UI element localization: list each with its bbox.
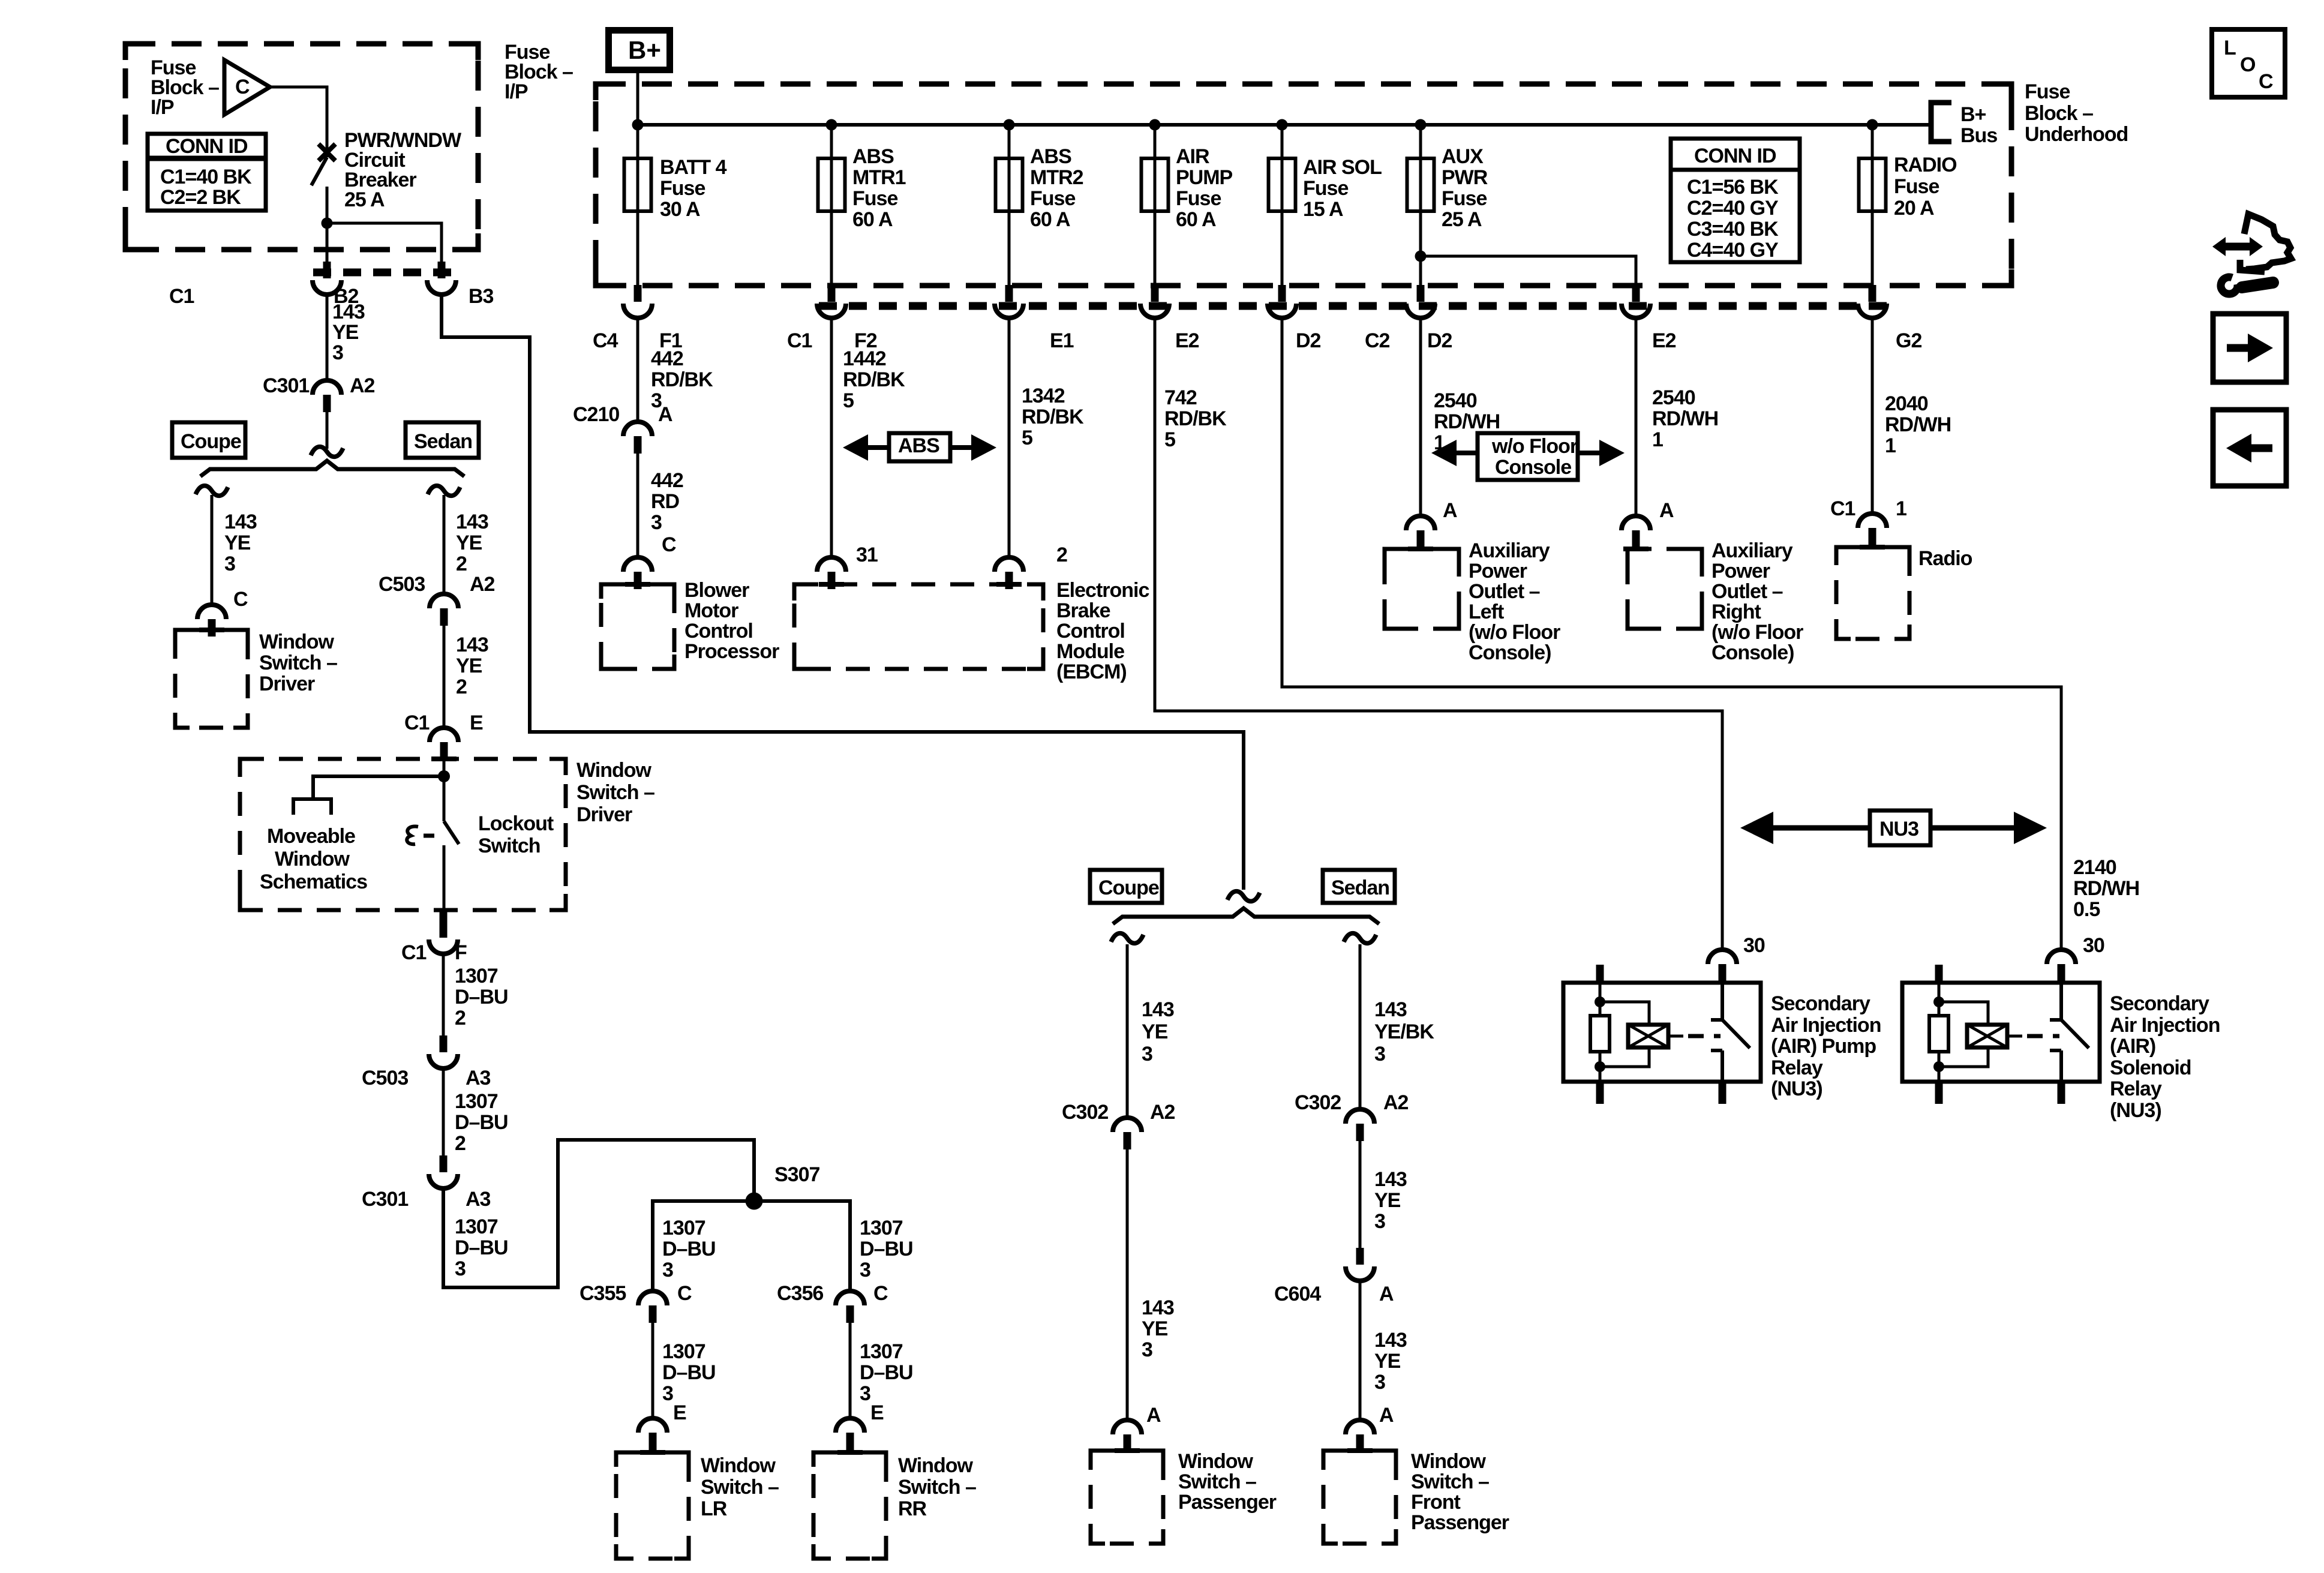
svg-text:MTR1: MTR1 bbox=[852, 166, 906, 189]
svg-text:1307: 1307 bbox=[860, 1217, 903, 1239]
wire AUX PWR branch to E2 bbox=[1421, 256, 1636, 285]
connector C604/A bbox=[1346, 1248, 1374, 1281]
svg-text:BATT 4: BATT 4 bbox=[660, 156, 727, 179]
svg-text:25 A: 25 A bbox=[1442, 208, 1482, 231]
B+ terminal box bbox=[609, 31, 670, 70]
svg-text:D–BU: D–BU bbox=[662, 1361, 716, 1384]
lockout mechanical link symbol bbox=[407, 826, 418, 844]
svg-text:Auxiliary: Auxiliary bbox=[1712, 539, 1793, 562]
wire 442 RD 3 bbox=[636, 454, 639, 557]
connector C1/F bbox=[440, 911, 448, 924]
svg-text:(w/o Floor: (w/o Floor bbox=[1712, 621, 1803, 644]
svg-text:A2: A2 bbox=[350, 374, 375, 397]
svg-text:Passenger: Passenger bbox=[1178, 1491, 1277, 1514]
svg-text:60 A: 60 A bbox=[1030, 208, 1070, 231]
svg-text:2540: 2540 bbox=[1434, 389, 1477, 412]
svg-text:Window: Window bbox=[259, 631, 335, 653]
svg-text:(AIR): (AIR) bbox=[2110, 1035, 2155, 1058]
svg-text:Window: Window bbox=[275, 848, 350, 870]
svg-text:143: 143 bbox=[1374, 1329, 1407, 1352]
svg-text:5: 5 bbox=[843, 389, 854, 412]
svg-text:5: 5 bbox=[1022, 427, 1032, 449]
wire air sol to relay bbox=[1282, 318, 2061, 950]
svg-text:742: 742 bbox=[1164, 386, 1197, 409]
svg-text:C2: C2 bbox=[1365, 329, 1390, 352]
connector C355/C bbox=[638, 1291, 667, 1323]
svg-text:Underhood: Underhood bbox=[2025, 123, 2128, 146]
svg-text:C4=40 GY: C4=40 GY bbox=[1687, 239, 1779, 262]
svg-text:E: E bbox=[673, 1401, 686, 1424]
svg-text:RD/WH: RD/WH bbox=[1652, 407, 1718, 430]
svg-text:YE: YE bbox=[1142, 1317, 1168, 1340]
svg-text:Fuse: Fuse bbox=[1894, 175, 1939, 198]
svg-text:3: 3 bbox=[455, 1257, 466, 1280]
svg-text:Motor: Motor bbox=[684, 599, 738, 622]
relay: Secondary Air Injection (AIR) Pump Relay (NU3) bbox=[1563, 965, 1761, 1104]
wire S307 to C355 and C356 bbox=[653, 1201, 850, 1291]
svg-text:RD/WH: RD/WH bbox=[2073, 877, 2139, 900]
fuse block I/P dashed box bbox=[125, 44, 478, 250]
svg-text:1342: 1342 bbox=[1022, 385, 1065, 407]
svg-text:Secondary: Secondary bbox=[1771, 992, 1870, 1015]
wire 143 YE 3 (coupe passenger) bbox=[1126, 944, 1129, 1118]
svg-text:YE/BK: YE/BK bbox=[1374, 1020, 1434, 1043]
Coupe box bbox=[172, 422, 245, 458]
CONN ID table (left) bbox=[148, 134, 266, 211]
svg-text:C503: C503 bbox=[379, 573, 425, 596]
coil pin stub bottom bbox=[1935, 1080, 1943, 1104]
svg-text:Switch –: Switch – bbox=[1178, 1470, 1256, 1493]
svg-text:442: 442 bbox=[651, 347, 683, 370]
wire break squiggle (passenger coupe branch) bbox=[1111, 933, 1143, 944]
svg-text:Left: Left bbox=[1469, 601, 1504, 623]
NU3 option arrow bbox=[1770, 825, 2017, 831]
Window Switch RR dashed box bbox=[813, 1452, 886, 1559]
connector C210/A bbox=[623, 422, 652, 454]
svg-text:Window: Window bbox=[577, 759, 652, 782]
wire 143 YE/BK 3 (sedan passenger) bbox=[1359, 944, 1362, 1109]
svg-text:143: 143 bbox=[456, 511, 488, 533]
svg-text:w/o Floor: w/o Floor bbox=[1491, 435, 1578, 458]
svg-text:Front: Front bbox=[1411, 1491, 1461, 1514]
svg-text:F: F bbox=[455, 941, 467, 964]
svg-text:Lockout: Lockout bbox=[478, 812, 554, 835]
svg-text:Sedan: Sedan bbox=[1331, 876, 1389, 899]
connector C301/A2 bbox=[313, 380, 341, 412]
switch pin stub top bbox=[2058, 965, 2065, 984]
svg-text:15 A: 15 A bbox=[1303, 198, 1343, 221]
wire break squiggle (coupe branch) bbox=[196, 486, 228, 496]
wire 1342 RD/BK 5 bbox=[1008, 318, 1011, 557]
connector test icon: connector housing outline bbox=[2244, 214, 2291, 269]
svg-text:30: 30 bbox=[2083, 934, 2104, 957]
svg-text:143: 143 bbox=[1142, 998, 1174, 1021]
svg-text:RD: RD bbox=[651, 490, 680, 513]
svg-text:Driver: Driver bbox=[259, 673, 315, 695]
svg-text:1307: 1307 bbox=[455, 965, 498, 987]
svg-text:1: 1 bbox=[1652, 428, 1663, 451]
wire bus to AIR SOL fuse bbox=[1281, 125, 1284, 285]
svg-text:YE: YE bbox=[1374, 1189, 1401, 1212]
svg-text:PWR: PWR bbox=[1442, 166, 1488, 189]
svg-text:Electronic: Electronic bbox=[1056, 579, 1149, 602]
svg-text:Switch –: Switch – bbox=[577, 781, 654, 804]
Window Switch Front Passenger dashed box bbox=[1323, 1451, 1396, 1544]
svg-text:143: 143 bbox=[1374, 998, 1407, 1021]
moveable window schematics stub symbol bbox=[293, 799, 331, 815]
svg-text:Outlet –: Outlet – bbox=[1469, 580, 1540, 603]
svg-text:Bus: Bus bbox=[1960, 124, 1997, 147]
svg-text:G2: G2 bbox=[1896, 329, 1921, 352]
svg-text:C: C bbox=[677, 1282, 692, 1305]
svg-text:Console): Console) bbox=[1712, 641, 1794, 664]
svg-text:Coupe: Coupe bbox=[1098, 876, 1159, 899]
svg-text:A: A bbox=[1443, 499, 1457, 522]
resistor branch bbox=[1938, 984, 1941, 1080]
svg-text:A: A bbox=[1379, 1283, 1394, 1305]
svg-text:RD/WH: RD/WH bbox=[1434, 410, 1500, 433]
wire 1442 RD/BK 5 bbox=[830, 318, 833, 557]
svg-text:30: 30 bbox=[1743, 934, 1765, 957]
svg-text:RD/WH: RD/WH bbox=[1885, 413, 1951, 436]
wire 1307 D-BU 2 bbox=[442, 954, 445, 1035]
svg-text:C1: C1 bbox=[404, 712, 430, 734]
fuse block underhood dashed box bbox=[596, 84, 2011, 286]
wire from triangle to breaker bbox=[270, 87, 327, 157]
svg-text:YE: YE bbox=[1142, 1020, 1168, 1043]
svg-text:(NU3): (NU3) bbox=[2110, 1099, 2161, 1122]
connector E1 bbox=[995, 285, 1023, 318]
backward arrow box bbox=[2213, 410, 2286, 486]
svg-text:A2: A2 bbox=[470, 573, 495, 596]
svg-text:Sedan: Sedan bbox=[414, 430, 472, 453]
svg-text:C: C bbox=[873, 1282, 888, 1305]
connector E2 (aux right) bbox=[1622, 285, 1650, 318]
connector row dotted line (B2-B3) bbox=[313, 269, 457, 277]
svg-text:RADIO: RADIO bbox=[1894, 154, 1957, 176]
svg-text:2: 2 bbox=[456, 553, 467, 575]
svg-text:C210: C210 bbox=[573, 403, 619, 426]
splice S307 bbox=[746, 1193, 763, 1210]
svg-text:Fuse: Fuse bbox=[1030, 187, 1075, 210]
wire 442 RD/BK 3 bbox=[636, 318, 639, 422]
svg-text:RD/BK: RD/BK bbox=[651, 368, 713, 391]
svg-text:Air Injection: Air Injection bbox=[1771, 1014, 1881, 1037]
svg-text:A2: A2 bbox=[1383, 1091, 1409, 1114]
node: breaker output junction bbox=[322, 218, 333, 229]
svg-text:A3: A3 bbox=[466, 1188, 491, 1211]
node: lockout junction bbox=[438, 770, 450, 782]
wire 2040 RD/WH 1 (radio) bbox=[1871, 318, 1874, 514]
coil to switch dashed link bbox=[2007, 1035, 2022, 1038]
svg-text:A: A bbox=[1379, 1404, 1394, 1427]
relay: Secondary Air Injection (AIR) Solenoid Relay (NU3) bbox=[1902, 965, 2100, 1104]
svg-text:2: 2 bbox=[455, 1007, 466, 1029]
wire below C301 bbox=[326, 412, 329, 449]
svg-text:143: 143 bbox=[1142, 1296, 1174, 1319]
svg-text:D–BU: D–BU bbox=[860, 1238, 913, 1260]
Window Switch Passenger dashed box bbox=[1091, 1451, 1163, 1544]
svg-text:B3: B3 bbox=[469, 285, 494, 308]
wire 1307 D-BU 3 (to S307) bbox=[443, 1140, 754, 1287]
connector C1/1 (radio) bbox=[1858, 514, 1887, 545]
Window Switch Driver (coupe) dashed box bbox=[175, 630, 248, 728]
connector test icon: double arrow bbox=[2221, 243, 2254, 251]
svg-text:LR: LR bbox=[701, 1497, 727, 1520]
connector C302/A2 (sedan) bbox=[1346, 1109, 1374, 1141]
coil branch bbox=[1600, 1002, 1649, 1067]
connector row dotted line bbox=[819, 302, 1887, 310]
svg-text:B+: B+ bbox=[628, 36, 661, 64]
svg-text:Block –: Block – bbox=[2025, 102, 2093, 125]
svg-text:2540: 2540 bbox=[1652, 386, 1695, 409]
fuse ABS MTR2 60A bbox=[996, 158, 1023, 211]
svg-text:Control: Control bbox=[1056, 620, 1125, 643]
wire 1307 D-BU 2 (second) bbox=[442, 1068, 445, 1155]
svg-text:60 A: 60 A bbox=[1176, 208, 1216, 231]
svg-text:MTR2: MTR2 bbox=[1030, 166, 1083, 189]
coil pin stub top bbox=[1935, 965, 1943, 984]
svg-text:143: 143 bbox=[1374, 1168, 1407, 1191]
connector E (LR) bbox=[638, 1418, 667, 1450]
svg-text:Control: Control bbox=[684, 620, 753, 643]
svg-text:3: 3 bbox=[1142, 1043, 1152, 1065]
coil pin stub top bbox=[1596, 965, 1604, 984]
svg-text:C3=40 BK: C3=40 BK bbox=[1687, 218, 1779, 241]
fuse AUX PWR 25A bbox=[1407, 158, 1434, 211]
wire bus to AUX PWR fuse bbox=[1419, 125, 1422, 285]
svg-text:Module: Module bbox=[1056, 640, 1124, 663]
svg-text:Fuse: Fuse bbox=[1303, 177, 1348, 200]
svg-text:(w/o Floor: (w/o Floor bbox=[1469, 621, 1560, 644]
svg-text:0.5: 0.5 bbox=[2073, 898, 2100, 921]
wire bus to ABS MTR2 fuse bbox=[1008, 125, 1011, 285]
svg-text:3: 3 bbox=[860, 1259, 870, 1281]
svg-text:Switch –: Switch – bbox=[259, 652, 337, 674]
switch pin stub bottom bbox=[1719, 1080, 1727, 1104]
svg-text:Fuse: Fuse bbox=[2025, 80, 2070, 103]
svg-text:C301: C301 bbox=[362, 1188, 408, 1211]
svg-text:NU3: NU3 bbox=[1879, 818, 1918, 840]
svg-text:CONN ID: CONN ID bbox=[1694, 145, 1776, 167]
svg-text:1307: 1307 bbox=[662, 1217, 705, 1239]
connector E (RR) bbox=[836, 1418, 864, 1450]
svg-text:YE: YE bbox=[456, 655, 482, 677]
svg-text:C302: C302 bbox=[1062, 1101, 1108, 1124]
svg-text:3: 3 bbox=[224, 553, 235, 575]
wire break squiggle (feed) bbox=[311, 447, 343, 457]
svg-text:Passenger: Passenger bbox=[1411, 1511, 1509, 1534]
svg-text:Window: Window bbox=[898, 1454, 974, 1477]
svg-text:5: 5 bbox=[1164, 428, 1175, 451]
fuse AIR SOL 15A bbox=[1269, 158, 1296, 211]
switch bbox=[1711, 984, 1750, 1080]
coupe/sedan split brace bbox=[200, 461, 464, 476]
svg-text:ABS: ABS bbox=[852, 145, 894, 168]
wire break squiggle (passenger sedan branch) bbox=[1344, 933, 1376, 944]
svg-text:C355: C355 bbox=[580, 1282, 626, 1305]
svg-text:YE: YE bbox=[1374, 1350, 1401, 1373]
circuit breaker PWR/WNDW 25A bbox=[319, 144, 335, 161]
svg-text:Fuse: Fuse bbox=[660, 177, 705, 200]
svg-text:31: 31 bbox=[856, 544, 878, 566]
svg-text:1307: 1307 bbox=[860, 1340, 903, 1363]
svg-text:3: 3 bbox=[1374, 1043, 1385, 1065]
svg-text:143: 143 bbox=[332, 301, 365, 323]
svg-text:E2: E2 bbox=[1175, 329, 1199, 352]
switch bbox=[2050, 984, 2089, 1080]
coupe/sedan split brace (middle) bbox=[1113, 908, 1379, 924]
svg-text:Radio: Radio bbox=[1918, 547, 1972, 570]
svg-text:D2: D2 bbox=[1296, 329, 1321, 352]
connector A (front passenger) bbox=[1346, 1420, 1374, 1452]
svg-text:1442: 1442 bbox=[843, 347, 886, 370]
svg-text:C1: C1 bbox=[1830, 497, 1855, 520]
connector pin 31 bbox=[817, 557, 846, 589]
svg-text:Power: Power bbox=[1712, 560, 1770, 583]
svg-text:C1=40 BK: C1=40 BK bbox=[160, 166, 252, 188]
svg-text:RD/BK: RD/BK bbox=[1164, 407, 1227, 430]
resistor branch bbox=[1599, 984, 1602, 1080]
svg-text:ABS: ABS bbox=[1030, 145, 1071, 168]
svg-text:Console: Console bbox=[1495, 456, 1571, 479]
B+ Bus end bracket bbox=[1931, 103, 1951, 142]
svg-text:3: 3 bbox=[1374, 1371, 1385, 1394]
svg-text:Brake: Brake bbox=[1056, 599, 1110, 622]
svg-text:C: C bbox=[233, 588, 248, 611]
svg-text:3: 3 bbox=[1374, 1210, 1385, 1233]
connector C302/A2 (coupe) bbox=[1113, 1118, 1142, 1149]
connector C2/D2 (aux pwr) bbox=[1406, 285, 1435, 318]
lockout switch bbox=[443, 776, 446, 821]
svg-text:(NU3): (NU3) bbox=[1771, 1077, 1822, 1100]
svg-text:YE: YE bbox=[224, 532, 251, 554]
connector C1/B2 bbox=[313, 262, 341, 295]
svg-text:3: 3 bbox=[860, 1382, 870, 1405]
connector C301/A3 bbox=[429, 1155, 458, 1188]
svg-text:Processor: Processor bbox=[684, 640, 779, 663]
svg-text:D2: D2 bbox=[1427, 329, 1452, 352]
svg-text:Relay: Relay bbox=[2110, 1077, 2162, 1100]
svg-text:C356: C356 bbox=[777, 1282, 823, 1305]
svg-text:Fuse: Fuse bbox=[852, 187, 897, 210]
ABS option arrow bbox=[867, 445, 973, 450]
svg-text:3: 3 bbox=[662, 1259, 673, 1281]
B+ bus line bbox=[638, 123, 1931, 127]
svg-text:A2: A2 bbox=[1150, 1101, 1175, 1124]
connector C4/F1 bbox=[623, 285, 652, 318]
Sedan box (middle) bbox=[1323, 870, 1395, 903]
connector C1/F2 bbox=[817, 285, 846, 318]
svg-text:Fuse: Fuse bbox=[1176, 187, 1221, 210]
svg-text:Power: Power bbox=[1469, 560, 1527, 583]
svg-text:143: 143 bbox=[224, 511, 257, 533]
svg-text:D–BU: D–BU bbox=[455, 1236, 508, 1259]
Blower Motor Control Processor dashed box bbox=[601, 584, 674, 669]
svg-text:E: E bbox=[870, 1401, 884, 1424]
svg-text:Schematics: Schematics bbox=[260, 870, 367, 893]
wire 143 YE 3 (B2 to C301) bbox=[326, 295, 329, 380]
svg-text:2040: 2040 bbox=[1885, 392, 1928, 415]
svg-text:C1: C1 bbox=[787, 329, 812, 352]
svg-text:C2=40 GY: C2=40 GY bbox=[1687, 197, 1779, 220]
svg-text:C2=2 BK: C2=2 BK bbox=[160, 186, 241, 209]
wire bus to AIR PUMP fuse bbox=[1154, 125, 1157, 285]
svg-text:Switch –: Switch – bbox=[701, 1476, 779, 1499]
wire 143 YE 3 (below C302 coupe) bbox=[1126, 1149, 1129, 1420]
svg-text:D–BU: D–BU bbox=[662, 1238, 716, 1260]
svg-text:2: 2 bbox=[455, 1132, 466, 1155]
svg-text:Switch –: Switch – bbox=[898, 1476, 976, 1499]
svg-text:30 A: 30 A bbox=[660, 198, 700, 221]
connector 30 (pump relay) bbox=[1708, 950, 1737, 981]
wire junction to B3 bbox=[327, 223, 442, 262]
svg-text:D–BU: D–BU bbox=[455, 986, 508, 1008]
svg-text:D–BU: D–BU bbox=[860, 1361, 913, 1384]
fuse ABS MTR1 60A bbox=[818, 158, 845, 211]
switch pin stub top bbox=[1719, 965, 1727, 984]
svg-text:2: 2 bbox=[1056, 544, 1067, 566]
connector C1/E bbox=[430, 728, 458, 760]
wire B3 to middle split bbox=[442, 295, 1244, 890]
svg-text:1: 1 bbox=[1896, 497, 1906, 520]
svg-text:C302: C302 bbox=[1295, 1091, 1341, 1114]
svg-text:1307: 1307 bbox=[455, 1215, 498, 1238]
coil symbol bbox=[1628, 1025, 1668, 1047]
svg-text:B+: B+ bbox=[1960, 103, 1986, 126]
svg-text:3: 3 bbox=[332, 341, 343, 364]
fuse RADIO 20A bbox=[1859, 158, 1886, 211]
svg-text:YE: YE bbox=[456, 532, 482, 554]
node: AUX PWR branch junction bbox=[1415, 251, 1427, 262]
svg-text:PUMP: PUMP bbox=[1176, 166, 1233, 189]
connector E2 (air pump) bbox=[1140, 285, 1169, 318]
connector A (aux left) bbox=[1406, 516, 1435, 548]
Coupe box (middle) bbox=[1090, 870, 1162, 903]
connector test icon: lower bar bbox=[2240, 260, 2265, 272]
wire bus to ABS MTR1 fuse bbox=[830, 125, 833, 285]
coil to switch dashed link bbox=[1668, 1035, 1683, 1038]
in-line triangle connector C bbox=[224, 60, 270, 115]
svg-text:Switch –: Switch – bbox=[1411, 1470, 1489, 1493]
svg-text:ABS: ABS bbox=[898, 434, 939, 457]
svg-text:1: 1 bbox=[1885, 434, 1896, 457]
Window Switch Driver dashed box bbox=[240, 759, 566, 910]
svg-text:Fuse: Fuse bbox=[1442, 187, 1487, 210]
svg-text:AIR SOL: AIR SOL bbox=[1303, 156, 1382, 179]
svg-text:Right: Right bbox=[1712, 601, 1761, 623]
svg-text:D–BU: D–BU bbox=[455, 1111, 508, 1134]
svg-text:C: C bbox=[662, 533, 676, 556]
svg-text:S307: S307 bbox=[774, 1163, 819, 1186]
svg-text:C604: C604 bbox=[1274, 1283, 1321, 1305]
svg-text:Coupe: Coupe bbox=[181, 430, 241, 453]
svg-text:Moveable: Moveable bbox=[267, 825, 355, 848]
svg-text:C: C bbox=[2259, 70, 2273, 93]
coil symbol bbox=[1967, 1025, 2007, 1047]
wire break squiggle (middle feed) bbox=[1227, 891, 1260, 902]
wire 2540 RD/WH 1 (left) bbox=[1419, 318, 1422, 516]
svg-text:YE: YE bbox=[332, 321, 359, 344]
wire junction to B2 bbox=[326, 223, 329, 262]
svg-text:RR: RR bbox=[898, 1497, 927, 1520]
svg-text:C4: C4 bbox=[593, 329, 618, 352]
svg-text:Window: Window bbox=[1178, 1450, 1254, 1473]
svg-text:25 A: 25 A bbox=[344, 188, 385, 211]
connector D2 (air sol) bbox=[1268, 285, 1296, 318]
svg-text:Solenoid: Solenoid bbox=[2110, 1056, 2191, 1079]
svg-text:(EBCM): (EBCM) bbox=[1056, 661, 1127, 683]
